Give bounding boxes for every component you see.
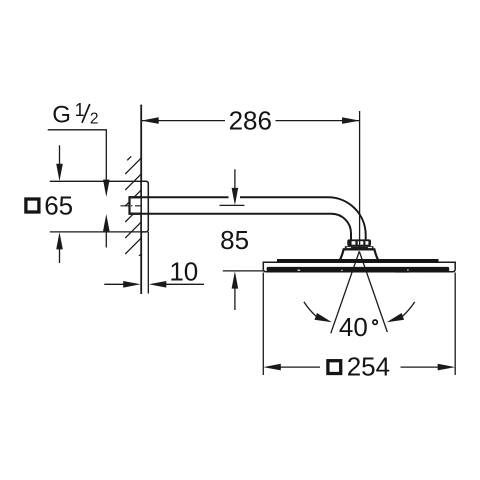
- svg-text:2: 2: [90, 110, 99, 127]
- shower arm top line: [129, 196, 328, 198]
- extension line head centre (286 dim): [359, 111, 361, 251]
- arrow 85 top: [232, 169, 239, 205]
- wall hatching: [125, 156, 142, 270]
- dimension line 254: [280, 366, 439, 368]
- extension line flange front: [147, 232, 149, 294]
- extension line 65 top: [50, 180, 141, 182]
- arrow 286 left: [141, 117, 159, 124]
- elbow inner curve: [332, 214, 352, 240]
- square symbol 254: [328, 361, 341, 374]
- svg-text:10: 10: [169, 256, 198, 286]
- elbow outer curve: [328, 197, 366, 240]
- nozzle face band: [267, 267, 450, 273]
- arrow 254 left: [263, 364, 281, 371]
- svg-text:65: 65: [44, 190, 73, 220]
- label 40 degrees: [339, 312, 377, 342]
- extension line 85 bottom: [223, 270, 263, 272]
- square symbol 65: [26, 199, 39, 212]
- extension line 65 bottom: [50, 231, 141, 233]
- swivel arc arrow right: [387, 302, 415, 322]
- dimension line 286: [141, 120, 359, 122]
- G 1/2 arrow up: [103, 214, 110, 247]
- shower arm bottom line: [129, 213, 332, 215]
- arrow 85 bottom: [232, 271, 239, 310]
- wall flange escutcheon: [141, 181, 148, 232]
- arrow 65 top: [56, 145, 63, 181]
- arrow 65 bottom: [56, 232, 63, 263]
- swivel arc arrow left: [304, 302, 332, 322]
- svg-text:85: 85: [220, 225, 249, 255]
- head cone mount: [340, 249, 379, 260]
- 85 reference tick: [220, 204, 245, 206]
- ball-joint lower ring: [345, 246, 374, 249]
- extension line 254 left: [262, 273, 264, 376]
- arrow 254 right: [438, 364, 456, 371]
- svg-text:254: 254: [347, 352, 390, 382]
- svg-text:286: 286: [229, 106, 272, 136]
- svg-text:G: G: [52, 102, 71, 129]
- wall nipple pipe stub: [130, 197, 143, 213]
- G 1/2 leader bracket: [48, 130, 107, 185]
- label G 1/2: [52, 100, 98, 129]
- shower head body: [263, 262, 455, 272]
- swivel angle leg left: [331, 251, 360, 333]
- arrow 286 right: [342, 117, 360, 124]
- head top plate bar: [277, 259, 439, 262]
- G 1/2 leader arrow down: [103, 180, 110, 197]
- ball-joint nut: [347, 239, 371, 246]
- arrow 10 left: [104, 281, 140, 288]
- extension line 254 right: [454, 273, 456, 376]
- arm centerline (dash-dot): [121, 205, 143, 207]
- swivel angle leg right: [359, 251, 387, 332]
- wall line: [140, 105, 142, 294]
- svg-text:40: 40: [339, 312, 368, 342]
- arrow 10 right: [149, 281, 204, 288]
- svg-text:1: 1: [75, 100, 85, 120]
